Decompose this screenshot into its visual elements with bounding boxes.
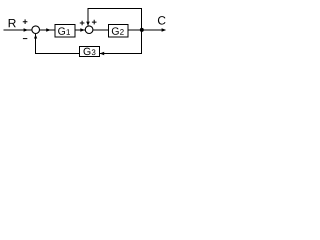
- wire node down to bottom path: [100, 30, 142, 54]
- wire G2 to output C: [128, 29, 165, 31]
- arrowhead G1 to sum2: [80, 28, 85, 32]
- wire G1 to sum2: [75, 29, 85, 31]
- block G3 box: [80, 46, 100, 56]
- plus sign at sum2 left input: [80, 21, 85, 26]
- block G3 label: [84, 48, 96, 55]
- arrowhead feedback into sum1 bottom: [34, 35, 37, 39]
- arrowhead sum1 to G1: [46, 28, 51, 32]
- node C label: [158, 16, 166, 25]
- arrowhead into sum1: [24, 28, 29, 32]
- block G1 label: [58, 27, 70, 34]
- block G2 label: [112, 27, 124, 34]
- wire G3 output to sum1: [36, 34, 80, 54]
- minus sign at sum1 feedback: [23, 38, 27, 40]
- wire top feedback path from node to sum2: [88, 8, 142, 29]
- block G1 box: [55, 25, 75, 38]
- plus sign at sum2 top input: [92, 20, 97, 25]
- node R label: [9, 19, 16, 27]
- summing junction sum1: [32, 26, 40, 34]
- wire sum1 to G1: [40, 29, 55, 31]
- arrowhead bottom path into G3 right: [100, 52, 105, 56]
- junction dot after G2: [140, 28, 144, 32]
- plus sign at sum1 input: [23, 19, 28, 24]
- summing junction sum2: [85, 26, 93, 34]
- wire sum2 to G2: [93, 29, 109, 31]
- block G2 box: [109, 25, 128, 38]
- wire R input line: [4, 29, 32, 31]
- arrowhead output to C: [162, 28, 167, 32]
- arrowhead top feedback into sum2 top: [86, 22, 90, 26]
